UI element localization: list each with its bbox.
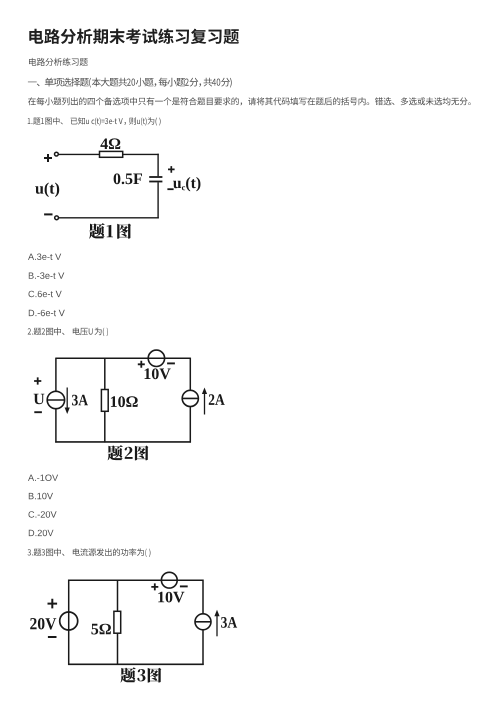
current value label 3A (72, 395, 88, 406)
current direction arrow 3A (66, 388, 68, 410)
wire left side (68, 580, 70, 666)
minus sign of uc(t) (167, 188, 173, 190)
wire top-left to resistor (58, 153, 99, 155)
current source 3A circle (47, 391, 64, 408)
wire left side lower (55, 409, 57, 443)
plus sign of U (34, 377, 41, 384)
wire bottom (59, 217, 159, 219)
current source 3A bar (195, 621, 211, 623)
wire right side lower (202, 630, 204, 665)
source value label 10V (145, 368, 171, 379)
wire middle branch upper (117, 580, 119, 611)
capacitor value label 0.5F (114, 173, 142, 184)
resistor 10Ω body (101, 390, 108, 412)
current direction arrow 3A (216, 615, 218, 637)
current source 2A bar (182, 397, 198, 399)
source value label 20V (30, 618, 56, 630)
current value label 3A (221, 617, 237, 628)
open terminal bottom-left (55, 216, 59, 220)
plus sign of 10V source (138, 361, 145, 368)
caption 题2图 (108, 445, 149, 460)
capacitor C top plate (149, 176, 162, 178)
source value label 10V (158, 592, 184, 603)
wire top side (56, 357, 190, 359)
caption 题3图 (121, 667, 162, 682)
minus sign of 10V source (180, 585, 188, 587)
resistor 5Ω body (114, 611, 121, 633)
current source 3A circle (195, 614, 211, 630)
plus sign of 20V source (48, 599, 58, 609)
wire right side down to capacitor (157, 154, 159, 177)
wire middle branch lower (117, 633, 119, 664)
wire right side upper (202, 580, 204, 614)
open terminal top-left (55, 152, 59, 156)
resistor 4Ω body (100, 151, 123, 157)
wire resistor to top-right corner (123, 153, 159, 155)
minus sign of U (34, 411, 42, 413)
minus sign of 20V source (48, 636, 57, 638)
minus sign at u(t) bottom terminal (44, 213, 52, 215)
capacitor voltage label uc(t) (173, 177, 200, 191)
resistor value label 5Ω (91, 624, 111, 635)
resistor value label 10Ω (111, 396, 138, 407)
plus sign at u(t) top terminal (44, 154, 52, 162)
capacitor C bottom plate (149, 181, 162, 183)
wire left side upper (55, 358, 57, 392)
wire middle branch upper (104, 358, 106, 389)
current value label 2A (209, 394, 225, 405)
wire right side lower (189, 407, 191, 443)
minus sign of 10V source (167, 362, 175, 364)
wire right side upper (189, 358, 191, 391)
voltage label U (34, 394, 45, 405)
wire bottom side (55, 441, 191, 443)
source voltage label u(t) (35, 183, 59, 198)
voltage source 10V circle (148, 350, 164, 366)
document title (29, 29, 239, 45)
wire capacitor to bottom-right corner (157, 182, 159, 218)
current source 2A circle (182, 390, 198, 406)
wire middle branch lower (104, 411, 106, 442)
current direction arrow 2A (204, 393, 206, 415)
resistor value label 4Ω (100, 138, 120, 149)
voltage source 10V circle (161, 572, 177, 588)
plus sign of 10V source (151, 583, 158, 590)
current source 3A bar (47, 399, 64, 401)
caption 题1图 (89, 223, 131, 239)
wire bottom side (68, 663, 204, 665)
plus sign of uc(t) (168, 166, 175, 173)
wire top side (69, 579, 203, 581)
voltage source 20V circle (60, 612, 78, 630)
